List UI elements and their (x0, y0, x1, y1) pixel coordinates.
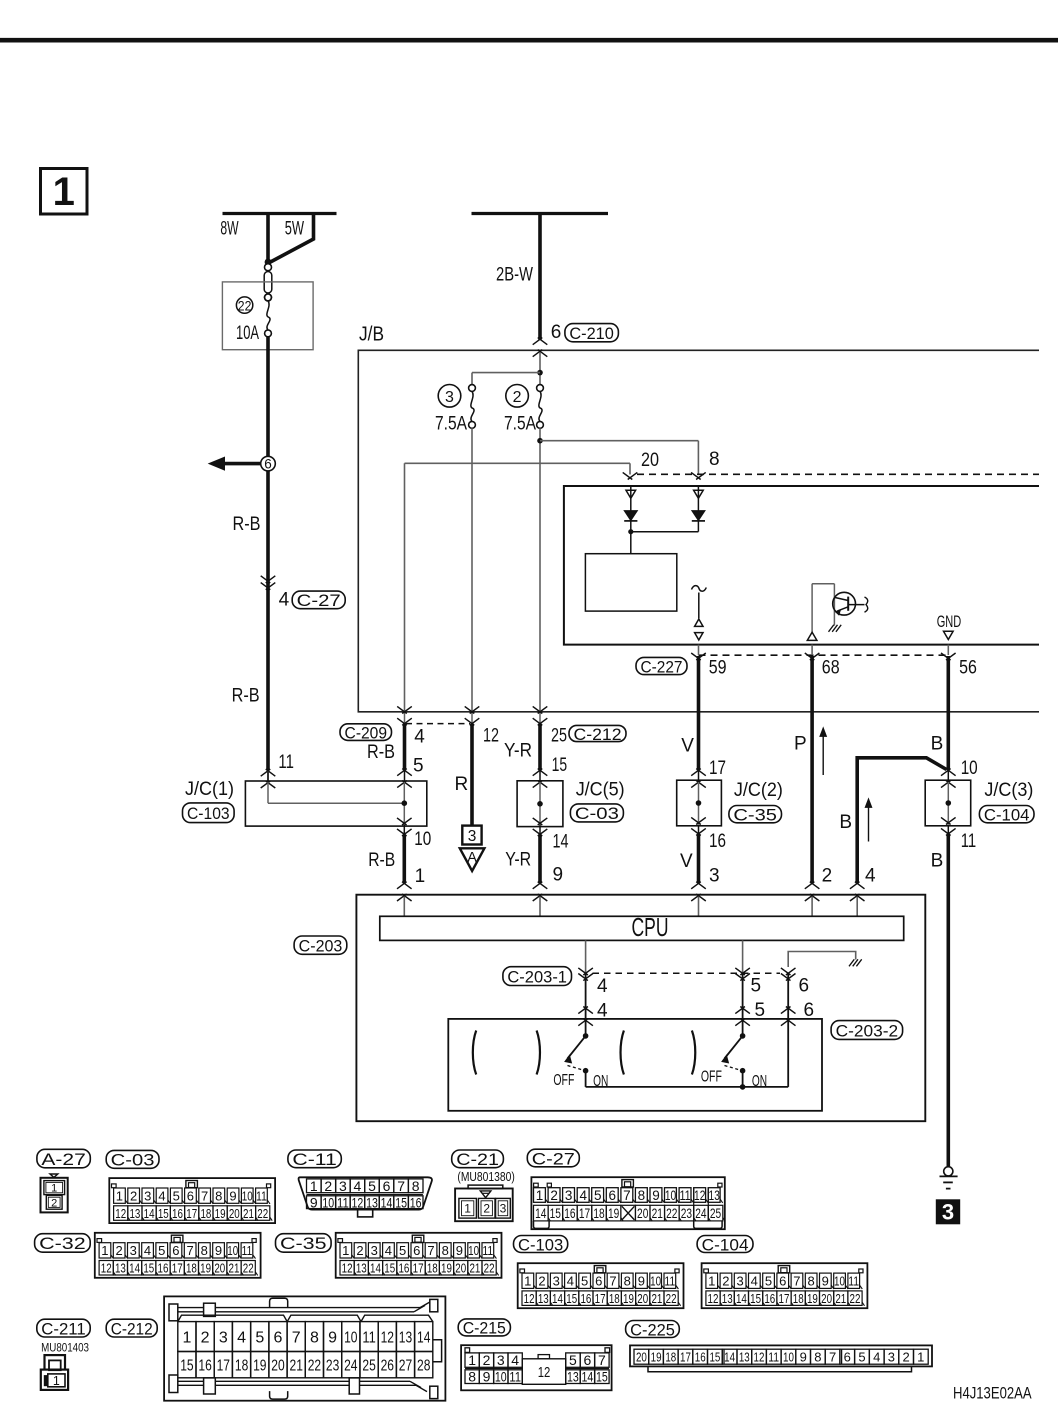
svg-text:10: 10 (227, 1243, 238, 1258)
connector C-211 (41, 1355, 68, 1390)
svg-text:R-B: R-B (368, 850, 395, 871)
svg-text:16: 16 (158, 1261, 169, 1276)
junction connector J/C(1) box (245, 781, 426, 826)
svg-text:11: 11 (664, 1274, 675, 1289)
chevron pin 56 (941, 645, 956, 661)
pill C-104 at J/C(3) (979, 805, 1034, 824)
pill C-209 (340, 723, 392, 742)
svg-text:3: 3 (736, 1274, 743, 1289)
fuse 2 element (537, 385, 544, 429)
label 7.5A fuse2 (504, 413, 536, 434)
svg-text:15: 15 (143, 1261, 154, 1276)
svg-text:5: 5 (755, 1000, 766, 1021)
svg-text:6: 6 (609, 1188, 617, 1203)
connector C-11 (299, 1177, 432, 1217)
wire R pin12 down (470, 724, 474, 826)
svg-text:17: 17 (779, 1291, 790, 1306)
circled 22 (236, 297, 252, 313)
label pin 5 (413, 756, 424, 777)
svg-text:1: 1 (101, 1243, 108, 1258)
svg-text:13: 13 (366, 1194, 378, 1210)
svg-text:14: 14 (381, 1194, 393, 1210)
svg-text:1: 1 (464, 1202, 471, 1216)
svg-text:13: 13 (538, 1291, 549, 1306)
svg-text:3: 3 (144, 1188, 151, 1203)
inline connector C-27 chevrons (261, 576, 276, 590)
svg-text:5: 5 (569, 1352, 577, 1368)
svg-text:15: 15 (596, 1369, 608, 1385)
svg-text:16: 16 (410, 1194, 422, 1210)
svg-text:3: 3 (445, 389, 454, 406)
label C-21 (452, 1150, 504, 1169)
label J/C(3) (984, 780, 1033, 801)
svg-text:15: 15 (395, 1194, 407, 1210)
svg-text:C-103: C-103 (187, 804, 230, 823)
label pin 9 CPU (553, 864, 564, 885)
svg-text:25: 25 (710, 1206, 721, 1221)
svg-text:C-03: C-03 (111, 1151, 155, 1170)
label C-27 bottom (527, 1149, 579, 1168)
svg-text:MU801403: MU801403 (41, 1342, 89, 1354)
internal ground path pin 6 (788, 952, 862, 968)
label C-103 bottom (514, 1235, 568, 1254)
svg-text:2: 2 (513, 389, 522, 406)
inline connector C-203-1 chevrons pin4 (578, 968, 593, 981)
connector C-210 chevrons (533, 338, 548, 357)
svg-text:8: 8 (624, 1274, 631, 1289)
svg-text:14: 14 (724, 1349, 735, 1364)
svg-text:11: 11 (679, 1188, 690, 1203)
label pin 14 (553, 831, 569, 852)
svg-text:10A: 10A (236, 323, 259, 344)
svg-text:16: 16 (709, 831, 726, 852)
svg-text:14: 14 (535, 1206, 547, 1221)
svg-text:J/C(5): J/C(5) (576, 779, 625, 800)
fuse 22 element (265, 294, 272, 337)
connector A-27 (41, 1174, 68, 1212)
chevrons into J/C(2) (691, 769, 706, 788)
svg-text:4: 4 (354, 1178, 362, 1194)
svg-text:14: 14 (417, 1329, 430, 1346)
svg-text:2: 2 (722, 1274, 729, 1289)
svg-text:B: B (931, 734, 944, 755)
svg-text:15: 15 (552, 755, 568, 776)
svg-text:68: 68 (822, 658, 840, 679)
dashed line C-209 group (406, 723, 470, 725)
svg-text:25: 25 (362, 1358, 375, 1375)
svg-text:9: 9 (229, 1188, 236, 1203)
svg-text:24: 24 (695, 1206, 707, 1221)
svg-text:27: 27 (399, 1358, 412, 1375)
svg-text:14: 14 (736, 1291, 747, 1306)
CPU output wires (586, 940, 743, 973)
svg-text:12: 12 (538, 1364, 551, 1381)
lamp parentheses pair 1 (473, 1031, 540, 1075)
label J/C(2) (734, 780, 783, 801)
svg-text:11: 11 (256, 1188, 267, 1203)
J/B wire fuse2 down with branch to pin 8 (537, 428, 698, 712)
svg-text:7.5A: 7.5A (435, 413, 467, 434)
lamp unit box (585, 554, 676, 611)
svg-text:J/C(1): J/C(1) (185, 779, 234, 800)
svg-text:13: 13 (129, 1206, 140, 1221)
svg-text:16: 16 (564, 1206, 575, 1221)
svg-text:C-32: C-32 (39, 1234, 86, 1253)
svg-text:7: 7 (793, 1274, 800, 1289)
svg-text:9: 9 (328, 1329, 337, 1346)
svg-text:17: 17 (172, 1261, 183, 1276)
svg-text:10: 10 (834, 1274, 845, 1289)
label pin 11 (278, 752, 294, 773)
svg-text:10: 10 (414, 829, 431, 850)
svg-text:22: 22 (308, 1358, 321, 1375)
label pin 68 (822, 658, 840, 679)
svg-text:19: 19 (623, 1291, 634, 1306)
svg-text:2: 2 (356, 1243, 363, 1258)
chevrons out of J/C(5) pin 14 (533, 818, 548, 836)
chevrons out of J/C(1) pin 10 (397, 818, 412, 836)
J/B wire branch to pin 20 and C-209 pin4 (405, 463, 631, 712)
chevron pin 59 (691, 645, 706, 661)
wire Y-R J/C(5) to CPU pin9 (538, 834, 542, 883)
svg-text:6: 6 (172, 1243, 179, 1258)
pill C-27 (292, 591, 345, 610)
fuse 3 element (469, 385, 476, 429)
svg-text:16: 16 (398, 1261, 409, 1276)
pill C-227 (636, 657, 687, 676)
svg-text:12: 12 (754, 1349, 765, 1364)
svg-text:7: 7 (292, 1329, 301, 1346)
svg-text:9: 9 (800, 1349, 807, 1364)
triangle terminal GND 56 (944, 631, 954, 639)
svg-text:5: 5 (399, 1243, 406, 1258)
J/B junction block box (358, 350, 1039, 712)
svg-text:22: 22 (484, 1261, 495, 1276)
svg-text:8: 8 (310, 1329, 319, 1346)
svg-text:15: 15 (384, 1261, 395, 1276)
svg-text:17: 17 (413, 1261, 424, 1276)
svg-text:2: 2 (483, 1352, 491, 1368)
svg-text:13: 13 (399, 1329, 412, 1346)
chevrons CPU pin 2 (805, 882, 820, 901)
label C-11 (288, 1150, 341, 1169)
svg-text:5: 5 (581, 1274, 588, 1289)
svg-text:18: 18 (200, 1206, 211, 1221)
svg-text:22: 22 (238, 297, 252, 313)
svg-text:8: 8 (638, 1188, 646, 1203)
svg-text:11: 11 (362, 1329, 375, 1346)
svg-text:14: 14 (144, 1206, 155, 1221)
svg-text:8W: 8W (220, 219, 238, 240)
svg-text:11: 11 (241, 1243, 252, 1258)
svg-text:5: 5 (413, 756, 424, 777)
svg-text:13: 13 (567, 1369, 579, 1385)
label OFF switch2 (701, 1068, 722, 1085)
label OFF switch1 (553, 1072, 574, 1089)
svg-text:11: 11 (768, 1349, 779, 1364)
svg-text:1: 1 (51, 1183, 57, 1195)
CPU bar (380, 912, 904, 942)
transistor internal ground (829, 625, 842, 632)
svg-text:1: 1 (53, 1374, 60, 1388)
svg-text:12: 12 (524, 1291, 535, 1306)
label A-27 (37, 1149, 90, 1169)
svg-text:4: 4 (865, 866, 876, 887)
connector C-21 (455, 1185, 513, 1221)
svg-text:8: 8 (807, 1274, 814, 1289)
label pin 59 (709, 657, 727, 678)
svg-text:C-21: C-21 (456, 1150, 499, 1169)
J/B internal wire to fuses (472, 353, 543, 389)
chevrons into J/C(3) (941, 769, 956, 788)
label C-03 (106, 1150, 159, 1169)
svg-text:3: 3 (553, 1274, 560, 1289)
svg-text:10: 10 (961, 758, 978, 779)
svg-text:5: 5 (594, 1188, 602, 1203)
inline connector C-203-1 chevrons pin6 (781, 968, 796, 981)
svg-text:14: 14 (129, 1261, 140, 1276)
svg-text:6: 6 (264, 457, 272, 472)
svg-text:59: 59 (709, 657, 727, 678)
svg-text:4: 4 (414, 726, 425, 747)
label R-B lower (232, 686, 260, 707)
svg-text:9: 9 (483, 1369, 491, 1385)
svg-text:22: 22 (666, 1206, 677, 1221)
triangle terminal 68 (807, 632, 817, 640)
label J/B (359, 324, 384, 346)
column switch unit box C-203 (356, 895, 925, 1121)
svg-text:1: 1 (708, 1274, 715, 1289)
svg-text:22: 22 (850, 1291, 861, 1306)
svg-text:3: 3 (500, 1202, 507, 1216)
svg-text:9: 9 (310, 1194, 318, 1210)
svg-text:C-27: C-27 (297, 591, 341, 610)
svg-text:18: 18 (186, 1261, 197, 1276)
label Y-R upper (504, 741, 532, 762)
svg-text:7: 7 (201, 1188, 208, 1203)
svg-text:17: 17 (709, 758, 726, 779)
svg-text:V: V (680, 851, 693, 872)
svg-text:4: 4 (279, 589, 290, 610)
label 8W (220, 219, 238, 240)
svg-text:20: 20 (636, 1349, 647, 1364)
svg-text:6: 6 (383, 1178, 391, 1194)
svg-text:C-203-2: C-203-2 (836, 1021, 899, 1040)
labels C-203-1 pins 4 5 6 (597, 976, 809, 998)
svg-text:3: 3 (219, 1329, 228, 1346)
circled 3 (438, 385, 461, 408)
svg-text:23: 23 (326, 1358, 339, 1375)
label J/C(5) (576, 779, 625, 800)
chevrons out of J/C(2) pin 16 (691, 817, 706, 835)
chevrons switch pin 5 (735, 1007, 750, 1026)
svg-text:4: 4 (597, 976, 608, 997)
svg-text:5: 5 (173, 1188, 180, 1203)
svg-text:6: 6 (844, 1349, 851, 1364)
svg-text:5: 5 (858, 1349, 865, 1364)
svg-text:12: 12 (352, 1194, 364, 1210)
pill C-203 (294, 936, 347, 955)
svg-text:3: 3 (130, 1243, 137, 1258)
junction connector J/C(2) box (677, 780, 722, 826)
svg-text:20: 20 (271, 1358, 284, 1375)
svg-text:J/C(3): J/C(3) (984, 780, 1033, 801)
wire V 59 to J/C(2) (697, 656, 701, 770)
svg-text:1: 1 (524, 1274, 531, 1289)
svg-text:1: 1 (415, 866, 426, 887)
chevron pin 8 (691, 472, 706, 479)
svg-text:13: 13 (739, 1349, 750, 1364)
transistor Q1 (833, 592, 868, 615)
svg-text:3: 3 (339, 1178, 347, 1194)
svg-text:6: 6 (779, 1274, 786, 1289)
junction connector J/C(5) box (517, 781, 563, 827)
connector C-103 (518, 1263, 684, 1308)
connector C-32 (95, 1233, 261, 1278)
svg-text:12: 12 (342, 1261, 353, 1276)
svg-text:56: 56 (959, 658, 977, 679)
figure code H4J13E02AA (953, 1383, 1032, 1402)
switch box C-203-2 (448, 1019, 822, 1111)
svg-text:C-215: C-215 (463, 1319, 506, 1338)
wire P 68 to CPU pin2 (810, 656, 814, 883)
J/B wire fuse3 to C-209 pin12 (471, 428, 473, 712)
svg-text:11: 11 (961, 831, 977, 852)
svg-text:11: 11 (337, 1194, 349, 1210)
fuse block box 22 10A (222, 282, 313, 350)
label pin 8 (709, 449, 720, 470)
svg-text:B: B (839, 812, 852, 833)
svg-text:14: 14 (553, 831, 569, 852)
svg-text:13: 13 (709, 1188, 720, 1203)
svg-text:13: 13 (356, 1261, 367, 1276)
svg-text:4: 4 (751, 1274, 758, 1289)
svg-text:15: 15 (566, 1291, 577, 1306)
connector 6 circle with arrow (209, 456, 275, 471)
svg-text:7: 7 (829, 1349, 836, 1364)
svg-text:11: 11 (509, 1369, 521, 1385)
svg-text:19: 19 (608, 1206, 619, 1221)
svg-text:22: 22 (257, 1206, 268, 1221)
svg-text:20: 20 (637, 1291, 648, 1306)
svg-text:1: 1 (310, 1178, 318, 1194)
svg-text:2: 2 (324, 1178, 332, 1194)
svg-text:C-225: C-225 (630, 1320, 675, 1339)
direction arrow beside P wire (820, 728, 827, 776)
svg-text:10: 10 (665, 1188, 676, 1203)
svg-text:3: 3 (468, 828, 477, 845)
lamp parentheses pair 2 (621, 1031, 696, 1075)
svg-text:2: 2 (822, 866, 833, 887)
chevrons CPU pin 3 (691, 882, 706, 901)
svg-text:C-104: C-104 (984, 805, 1030, 824)
svg-text:C-104: C-104 (702, 1235, 749, 1254)
svg-text:17: 17 (217, 1358, 230, 1375)
label B mid (839, 812, 852, 833)
switch ON bus to pin 6 (586, 1021, 789, 1090)
label P (794, 734, 807, 755)
svg-text:10: 10 (495, 1369, 507, 1385)
takeover triangle A (460, 848, 485, 871)
svg-text:16: 16 (764, 1291, 775, 1306)
svg-text:18: 18 (793, 1291, 804, 1306)
svg-text:C-27: C-27 (532, 1149, 575, 1168)
svg-text:21: 21 (835, 1291, 846, 1306)
svg-text:16: 16 (695, 1349, 706, 1364)
svg-text:24: 24 (344, 1358, 357, 1375)
svg-text:13: 13 (115, 1261, 126, 1276)
svg-text:12: 12 (381, 1329, 394, 1346)
svg-text:8: 8 (468, 1369, 476, 1385)
svg-text:20: 20 (229, 1206, 240, 1221)
svg-text:25: 25 (551, 726, 567, 747)
svg-text:17: 17 (186, 1206, 197, 1221)
junction connector J/C(3) box (925, 780, 971, 826)
label pin 6 at C-210 (551, 322, 562, 343)
svg-text:18: 18 (665, 1349, 676, 1364)
svg-text:16: 16 (198, 1358, 211, 1375)
svg-text:3: 3 (371, 1243, 378, 1258)
wire R-B main vertical (266, 337, 270, 771)
label C-32 (35, 1234, 91, 1254)
label pin 16 (709, 831, 726, 852)
svg-text:17: 17 (595, 1291, 606, 1306)
svg-text:8: 8 (412, 1178, 420, 1194)
svg-text:2: 2 (130, 1188, 137, 1203)
svg-text:Y-R: Y-R (505, 849, 531, 870)
pill C-210 (565, 324, 619, 343)
wire R-B J/C(1) to CPU pin1 (402, 834, 406, 883)
label R-B upper (233, 514, 261, 535)
wire 2B-W from bus (472, 214, 609, 340)
wire R-B pin4 to J/C(1) pin5 (397, 724, 412, 788)
svg-text:10: 10 (242, 1188, 253, 1203)
svg-text:15: 15 (180, 1358, 193, 1375)
svg-text:6: 6 (799, 976, 810, 997)
svg-text:GND: GND (937, 612, 962, 631)
wire B 56 to J/C(3) (946, 656, 950, 770)
label B below J/C(3) (931, 850, 944, 871)
svg-text:5: 5 (765, 1274, 772, 1289)
label pin 10 J/C(1) (414, 829, 431, 850)
svg-text:5: 5 (158, 1243, 165, 1258)
circled 2 (506, 385, 529, 408)
label GND (937, 612, 962, 631)
svg-text:14: 14 (552, 1291, 563, 1306)
svg-text:15: 15 (158, 1206, 169, 1221)
body ground symbol (940, 1167, 958, 1189)
svg-text:2: 2 (538, 1274, 545, 1289)
svg-text:7: 7 (397, 1178, 405, 1194)
svg-text:2: 2 (51, 1197, 57, 1209)
pill C-35 at J/C(2) (729, 805, 782, 824)
svg-text:C-209: C-209 (345, 723, 388, 742)
fusible link symbol (264, 259, 272, 301)
svg-text:3: 3 (888, 1349, 895, 1364)
svg-text:21: 21 (651, 1291, 662, 1306)
svg-text:20: 20 (821, 1291, 832, 1306)
svg-text:19: 19 (441, 1261, 452, 1276)
label pin 20 (641, 450, 659, 471)
switch 2 lever (722, 1021, 746, 1087)
svg-text:3: 3 (497, 1352, 505, 1368)
svg-text:12: 12 (694, 1188, 705, 1203)
svg-text:6: 6 (187, 1188, 194, 1203)
label ON switch2 (752, 1073, 767, 1090)
label pin 4 CPU (865, 866, 876, 887)
svg-text:21: 21 (290, 1358, 303, 1375)
label C-104 bottom (697, 1235, 753, 1254)
